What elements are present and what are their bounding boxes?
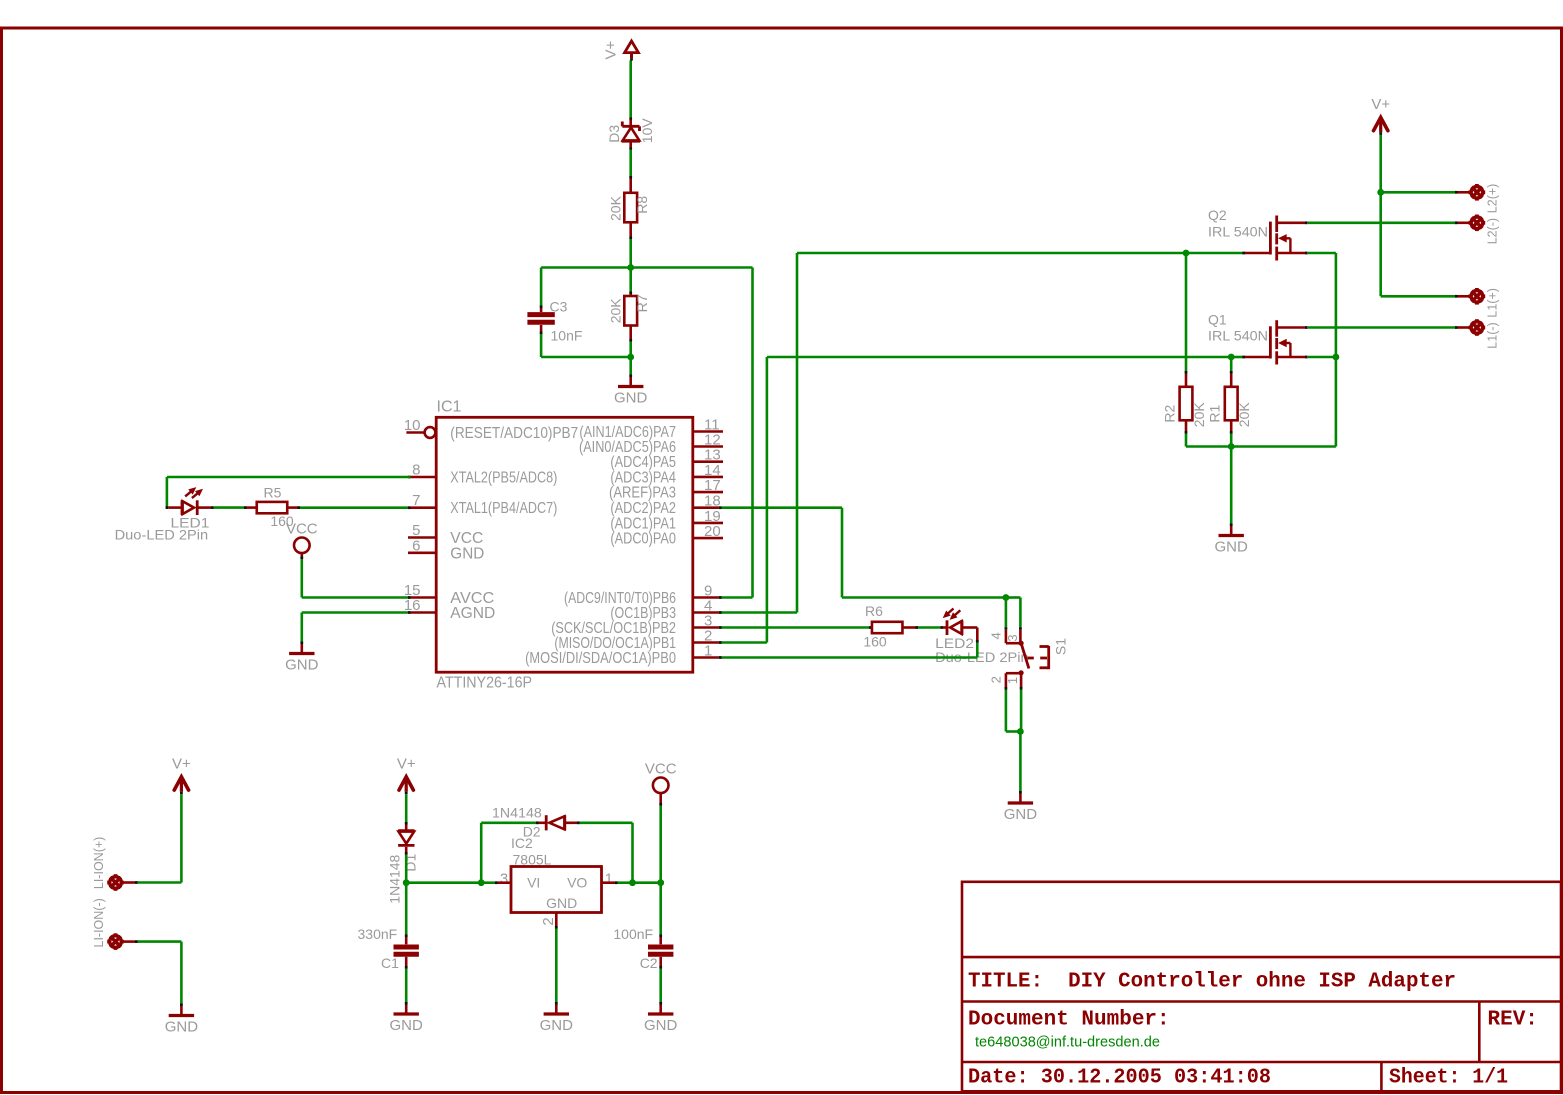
wire [1185, 253, 1188, 371]
capacitor C3 [527, 306, 554, 335]
wire [629, 342, 632, 358]
wire [481, 881, 495, 884]
junction [627, 264, 634, 271]
svg-text:Q2: Q2 [1208, 207, 1227, 223]
label 1N4148 (D1) [387, 854, 403, 903]
wire [631, 266, 753, 269]
svg-text:REV:: REV: [1488, 1009, 1538, 1032]
resistor R8 [624, 176, 637, 239]
wire [751, 268, 754, 598]
svg-text:S1: S1 [1053, 638, 1069, 655]
capacitor C2 [648, 935, 673, 969]
svg-text:GND: GND [450, 545, 484, 562]
wire [540, 334, 543, 357]
wire [302, 596, 408, 599]
svg-text:GND: GND [546, 895, 577, 911]
pin 7 (IC1) [408, 492, 436, 509]
pin 14 (IC1) [693, 462, 723, 479]
svg-text:V+: V+ [172, 755, 191, 772]
junction [403, 879, 410, 886]
wire [1020, 690, 1023, 732]
wire [302, 611, 408, 614]
label 7805L [513, 851, 552, 867]
pin 3 (S1) [1005, 634, 1020, 641]
pin 1 (IC1) [693, 643, 722, 660]
supply V+ (right) [1371, 96, 1390, 135]
label R1 [1207, 404, 1223, 422]
svg-text:L1(+): L1(+) [1486, 288, 1500, 318]
pin 20 (IC1) [693, 523, 723, 540]
pin name (ADC1)PA1 [610, 515, 676, 532]
pin 2 (IC2) [540, 917, 557, 925]
svg-text:(ADC0)PA0: (ADC0)PA0 [610, 531, 676, 548]
svg-text:GND: GND [1215, 539, 1249, 556]
ground (AGND) [285, 642, 319, 674]
label LI-ION(-) [92, 898, 106, 947]
svg-text:V+: V+ [603, 40, 620, 59]
svg-text:7: 7 [412, 492, 420, 509]
diode D1 [398, 822, 414, 855]
wire [540, 268, 543, 306]
connector L1(-) [1455, 319, 1485, 336]
wire [138, 940, 182, 943]
wire [659, 883, 662, 935]
svg-text:R1: R1 [1207, 404, 1223, 422]
svg-text:R6: R6 [865, 603, 883, 619]
wire [629, 357, 632, 375]
wire [1185, 434, 1188, 447]
resistor R5 [244, 502, 300, 513]
wire [629, 61, 632, 118]
wire [629, 239, 632, 268]
label L1(+) [1486, 288, 1500, 318]
svg-text:10nF: 10nF [551, 328, 583, 344]
svg-text:V+: V+ [397, 755, 416, 772]
label L2(+) [1486, 184, 1500, 214]
svg-text:20K: 20K [1191, 402, 1207, 428]
wire [659, 969, 662, 1003]
wire [1231, 356, 1242, 359]
wire [976, 628, 979, 643]
svg-text:Q1: Q1 [1208, 312, 1227, 328]
wire [580, 821, 633, 824]
wire [618, 881, 633, 884]
wire [1381, 191, 1455, 194]
junction [1017, 728, 1024, 735]
label D1 [403, 853, 419, 871]
wire [631, 823, 634, 883]
title block frame [962, 882, 1561, 1092]
label Duo-LED 2Pin (LED2) [935, 649, 1029, 665]
pin name (MISO/DO/OC1A)PB1 [554, 635, 676, 652]
label IC2 [511, 835, 533, 851]
pin name (MOSI/DI/SDA/OC1A)PB0 [525, 650, 676, 667]
label IC1 [437, 399, 462, 416]
label Duo-LED 2Pin (LED1) [115, 527, 209, 543]
label R8 [634, 196, 650, 214]
svg-text:10: 10 [404, 417, 421, 434]
label R5 [264, 485, 282, 501]
wire [659, 806, 662, 883]
svg-text:Sheet: 1/1: Sheet: 1/1 [1389, 1067, 1508, 1090]
wire [300, 506, 408, 509]
resistor R7 [624, 292, 637, 342]
label 20K (R7) [607, 298, 623, 324]
capacitor C1 [394, 935, 419, 969]
pin 11 (IC1) [693, 417, 723, 434]
IC IC2 outline [511, 867, 602, 913]
svg-text:6: 6 [412, 537, 420, 554]
svg-text:TITLE: DIY Controller ohne IS: TITLE: DIY Controller ohne ISP Adapter [968, 971, 1456, 994]
pin name AVCC [450, 590, 494, 607]
supply VCC (left) [286, 521, 318, 560]
svg-text:(RESET/ADC10)PB7: (RESET/ADC10)PB7 [450, 425, 578, 442]
wire [722, 626, 870, 629]
svg-text:L2(-): L2(-) [1486, 218, 1500, 244]
pin 9 (IC1) [693, 583, 722, 600]
pin 4 (IC1) [693, 598, 722, 615]
ground (R1 R2) [1215, 524, 1249, 556]
label D2 [523, 824, 541, 840]
supply V+ (battery) [172, 755, 191, 794]
pin 4 (S1) [989, 632, 1004, 639]
wire [1230, 447, 1233, 524]
wire [1005, 690, 1008, 732]
wire [767, 356, 1231, 359]
svg-text:R2: R2 [1162, 404, 1178, 422]
svg-text:GND: GND [614, 390, 648, 407]
pin stub VI [495, 881, 511, 884]
svg-text:D3: D3 [606, 125, 622, 143]
label C1 [381, 955, 399, 971]
svg-text:(MOSI/DI/SDA/OC1A)PB0: (MOSI/DI/SDA/OC1A)PB0 [525, 650, 676, 667]
document number label [968, 1009, 1170, 1032]
svg-text:IC1: IC1 [437, 399, 462, 416]
pin 13 (IC1) [693, 447, 723, 464]
junction [1333, 354, 1340, 361]
pin name (SCK/SCL/OC1B)PB2 [551, 620, 676, 637]
label LED2 [935, 635, 974, 651]
connector LI-ION(+) [107, 874, 137, 891]
wire [166, 477, 169, 508]
wire [841, 508, 844, 598]
svg-text:VI: VI [527, 875, 540, 891]
wire [541, 266, 631, 269]
junction [1003, 594, 1010, 601]
pin name XTAL1(PB4/ADC7) [450, 500, 557, 517]
wire [1335, 253, 1338, 357]
pin 6 (IC1) [408, 537, 436, 554]
svg-text:VCC: VCC [645, 761, 677, 778]
svg-text:Duo-LED 2Pin: Duo-LED 2Pin [115, 527, 209, 543]
wire [1381, 295, 1455, 298]
svg-text:1N4148: 1N4148 [492, 805, 542, 821]
connector L2(+) [1455, 184, 1485, 201]
label 1N4148 (D2) [492, 805, 542, 821]
svg-text:160: 160 [863, 634, 887, 650]
pin 16 (IC1) [404, 597, 436, 614]
pin name (ADC2)PA2 [610, 500, 676, 517]
LED LED1 [166, 487, 214, 515]
wire [1308, 356, 1336, 359]
svg-text:GND: GND [285, 657, 319, 674]
wire [405, 883, 408, 935]
pin name (AIN1/ADC6)PA7 [579, 424, 676, 441]
pin name (OC1B)PB3 [610, 605, 676, 622]
label R7 [634, 294, 650, 312]
junction [1183, 250, 1190, 257]
supply V+ (regulator) [397, 755, 416, 794]
wire [214, 506, 245, 509]
resistor R2 [1180, 371, 1193, 434]
wire [722, 656, 978, 659]
svg-text:C2: C2 [640, 955, 658, 971]
pin name (ADC0)PA0 [610, 531, 676, 548]
supply VCC (regulator) [645, 761, 677, 806]
svg-text:IRL 540N: IRL 540N [1208, 223, 1268, 239]
label 10V [639, 118, 655, 144]
label IRL 540N (Q2) [1208, 223, 1268, 239]
wire [405, 969, 408, 1003]
pin VO (IC2) [567, 875, 587, 891]
label LED1 [171, 515, 210, 531]
connector L1(+) [1455, 288, 1485, 305]
wire [796, 253, 799, 613]
svg-text:10V: 10V [639, 118, 655, 144]
wire [1379, 135, 1382, 192]
wire [633, 881, 661, 884]
svg-text:3: 3 [500, 870, 508, 887]
svg-text:te648038@inf.tu-dresden.de: te648038@inf.tu-dresden.de [975, 1034, 1160, 1051]
svg-text:R8: R8 [634, 196, 650, 214]
wire [722, 596, 753, 599]
label L2(-) [1486, 218, 1500, 244]
resistor R1 [1225, 371, 1238, 434]
pin 18 (IC1) [693, 493, 722, 510]
pin 15 (IC1) [404, 582, 436, 599]
pin 1 (IC2) [605, 870, 613, 887]
svg-text:GND: GND [540, 1017, 574, 1034]
label Q2 [1208, 207, 1227, 223]
svg-text:GND: GND [644, 1017, 678, 1034]
wire [976, 643, 979, 658]
pin stub GND (IC2) [555, 913, 558, 929]
svg-text:8: 8 [412, 462, 420, 479]
svg-text:R7: R7 [634, 294, 650, 312]
pin 19 (IC1) [693, 508, 723, 525]
pin 2 (S1) [989, 676, 1004, 683]
label Q1 [1208, 312, 1227, 328]
svg-text:20K: 20K [607, 298, 623, 324]
junction [1228, 443, 1235, 450]
svg-text:D1: D1 [403, 853, 419, 871]
svg-text:1N4148: 1N4148 [387, 854, 403, 903]
label S1 [1053, 638, 1069, 655]
wire [180, 942, 183, 1004]
svg-text:AGND: AGND [450, 605, 495, 622]
LED LED2 [941, 609, 978, 636]
wire [1308, 326, 1455, 329]
IC IC1 outline [436, 417, 693, 672]
wire [1019, 732, 1022, 792]
svg-text:VO: VO [567, 875, 587, 891]
svg-text:2: 2 [989, 676, 1004, 683]
ground (battery) [165, 1004, 199, 1036]
svg-text:100nF: 100nF [613, 926, 653, 942]
label 100nF [613, 926, 653, 942]
pin 5 (IC1) [408, 522, 436, 539]
wire [766, 357, 769, 643]
wire [1230, 434, 1233, 447]
wire [167, 476, 411, 479]
label 20K (R8) [607, 195, 623, 221]
label D3 [606, 125, 622, 143]
pin name VCC [450, 530, 483, 547]
pin 8 (IC1) [408, 462, 436, 479]
pin 3 (IC2) [500, 870, 508, 887]
junction [627, 354, 634, 361]
wire [797, 252, 1186, 255]
svg-text:4: 4 [989, 632, 1004, 639]
wire [1006, 596, 1021, 599]
svg-text:Date: 30.12.2005 03:41:08: Date: 30.12.2005 03:41:08 [968, 1067, 1271, 1090]
wire [1006, 730, 1021, 733]
label C3 [550, 299, 568, 315]
svg-text:ATTINY26-16P: ATTINY26-16P [437, 675, 533, 692]
ground (R7) [614, 375, 648, 407]
pin name (ADC3)PA4 [610, 469, 676, 486]
wire [918, 626, 941, 629]
wire [1379, 192, 1382, 296]
wire [300, 613, 303, 642]
ground (IC2) [540, 1002, 574, 1034]
svg-text:GND: GND [1004, 806, 1038, 823]
wire [722, 506, 843, 509]
svg-text:7805L: 7805L [513, 851, 552, 867]
wire [405, 795, 408, 823]
pin 2 (IC1) [693, 628, 722, 645]
svg-text:20K: 20K [607, 195, 623, 221]
svg-text:IRL 540N: IRL 540N [1208, 327, 1268, 343]
pin 12 (IC1) [693, 432, 723, 449]
svg-text:GND: GND [165, 1019, 199, 1036]
svg-text:1: 1 [1005, 677, 1020, 684]
wire [1335, 357, 1338, 447]
label R6 [865, 603, 883, 619]
diode D2 [536, 815, 580, 830]
supply V+ top [603, 40, 639, 60]
wire [1005, 598, 1008, 628]
wire [629, 150, 632, 177]
svg-text:C1: C1 [381, 955, 399, 971]
wire [555, 929, 558, 1003]
label IRL 540N (Q1) [1208, 327, 1268, 343]
wire [405, 855, 408, 883]
svg-text:XTAL2(PB5/ADC8): XTAL2(PB5/ADC8) [450, 470, 557, 487]
svg-text:IC2: IC2 [511, 835, 533, 851]
svg-text:VCC: VCC [286, 521, 318, 538]
wire [406, 881, 481, 884]
document number value [975, 1034, 1160, 1051]
svg-text:GND: GND [390, 1017, 424, 1034]
pin stub VO [602, 881, 618, 884]
wire [138, 881, 182, 884]
svg-text:330nF: 330nF [358, 926, 398, 942]
junction [657, 879, 664, 886]
wire [629, 268, 632, 292]
pin 1 (S1) [1005, 677, 1020, 684]
resistor R6 [869, 622, 918, 633]
svg-text:2: 2 [540, 917, 557, 925]
pin name (ADC9/INT0/T0)PB6 [564, 590, 676, 607]
transistor Q2 [1242, 216, 1307, 261]
pin GND (IC2) [546, 895, 577, 911]
label 20K (R1) [1236, 402, 1252, 428]
connector L2(-) [1455, 215, 1485, 232]
svg-text:(AREF)PA3: (AREF)PA3 [609, 485, 676, 502]
ground (C1) [390, 1002, 424, 1034]
ground (S1) [1004, 791, 1038, 823]
label LI-ION(+) [92, 837, 106, 889]
junction [1377, 189, 1384, 196]
wire [1186, 252, 1243, 255]
wire [300, 559, 303, 598]
date text [968, 1067, 1271, 1090]
pin name (AIN0/ADC5)PA6 [579, 439, 676, 456]
wire [481, 821, 536, 824]
wire [722, 641, 767, 644]
transistor Q1 [1242, 320, 1307, 364]
svg-text:1: 1 [605, 870, 613, 887]
junction [629, 879, 636, 886]
svg-text:20K: 20K [1236, 402, 1252, 428]
wire [1186, 445, 1336, 448]
label ATTINY26-16P [437, 675, 533, 692]
svg-text:C3: C3 [550, 299, 568, 315]
connector LI-ION(-) [107, 933, 137, 950]
wire [480, 823, 483, 883]
wire [1230, 357, 1233, 371]
zener diode D3 [622, 118, 641, 150]
label 160 (R6) [863, 634, 887, 650]
svg-text:L1(-): L1(-) [1486, 322, 1500, 348]
junction [1228, 354, 1235, 361]
pin VI (IC2) [527, 875, 540, 891]
svg-text:LI-ION(+): LI-ION(+) [92, 837, 106, 889]
pin 3 (IC1) [693, 613, 722, 630]
title text [968, 971, 1456, 994]
svg-text:LI-ION(-): LI-ION(-) [92, 898, 106, 947]
pin name (RESET/ADC10)PB7 [450, 425, 578, 442]
pin name (AREF)PA3 [609, 485, 676, 502]
label R2 [1162, 404, 1178, 422]
pin name GND [450, 545, 484, 562]
svg-text:XTAL1(PB4/ADC7): XTAL1(PB4/ADC7) [450, 500, 557, 517]
label 160 (R5) [270, 513, 294, 529]
sheet text [1389, 1067, 1508, 1090]
wire [1308, 222, 1455, 225]
pin name AGND [450, 605, 495, 622]
pin name (ADC4)PA5 [610, 454, 676, 471]
svg-text:V+: V+ [1371, 96, 1390, 113]
svg-text:20: 20 [704, 523, 721, 540]
pin 17 (IC1) [693, 477, 723, 494]
svg-text:R5: R5 [264, 485, 282, 501]
rev label [1488, 1009, 1538, 1032]
label C2 [640, 955, 658, 971]
label 20K (R2) [1191, 402, 1207, 428]
svg-text:L2(+): L2(+) [1486, 184, 1500, 214]
